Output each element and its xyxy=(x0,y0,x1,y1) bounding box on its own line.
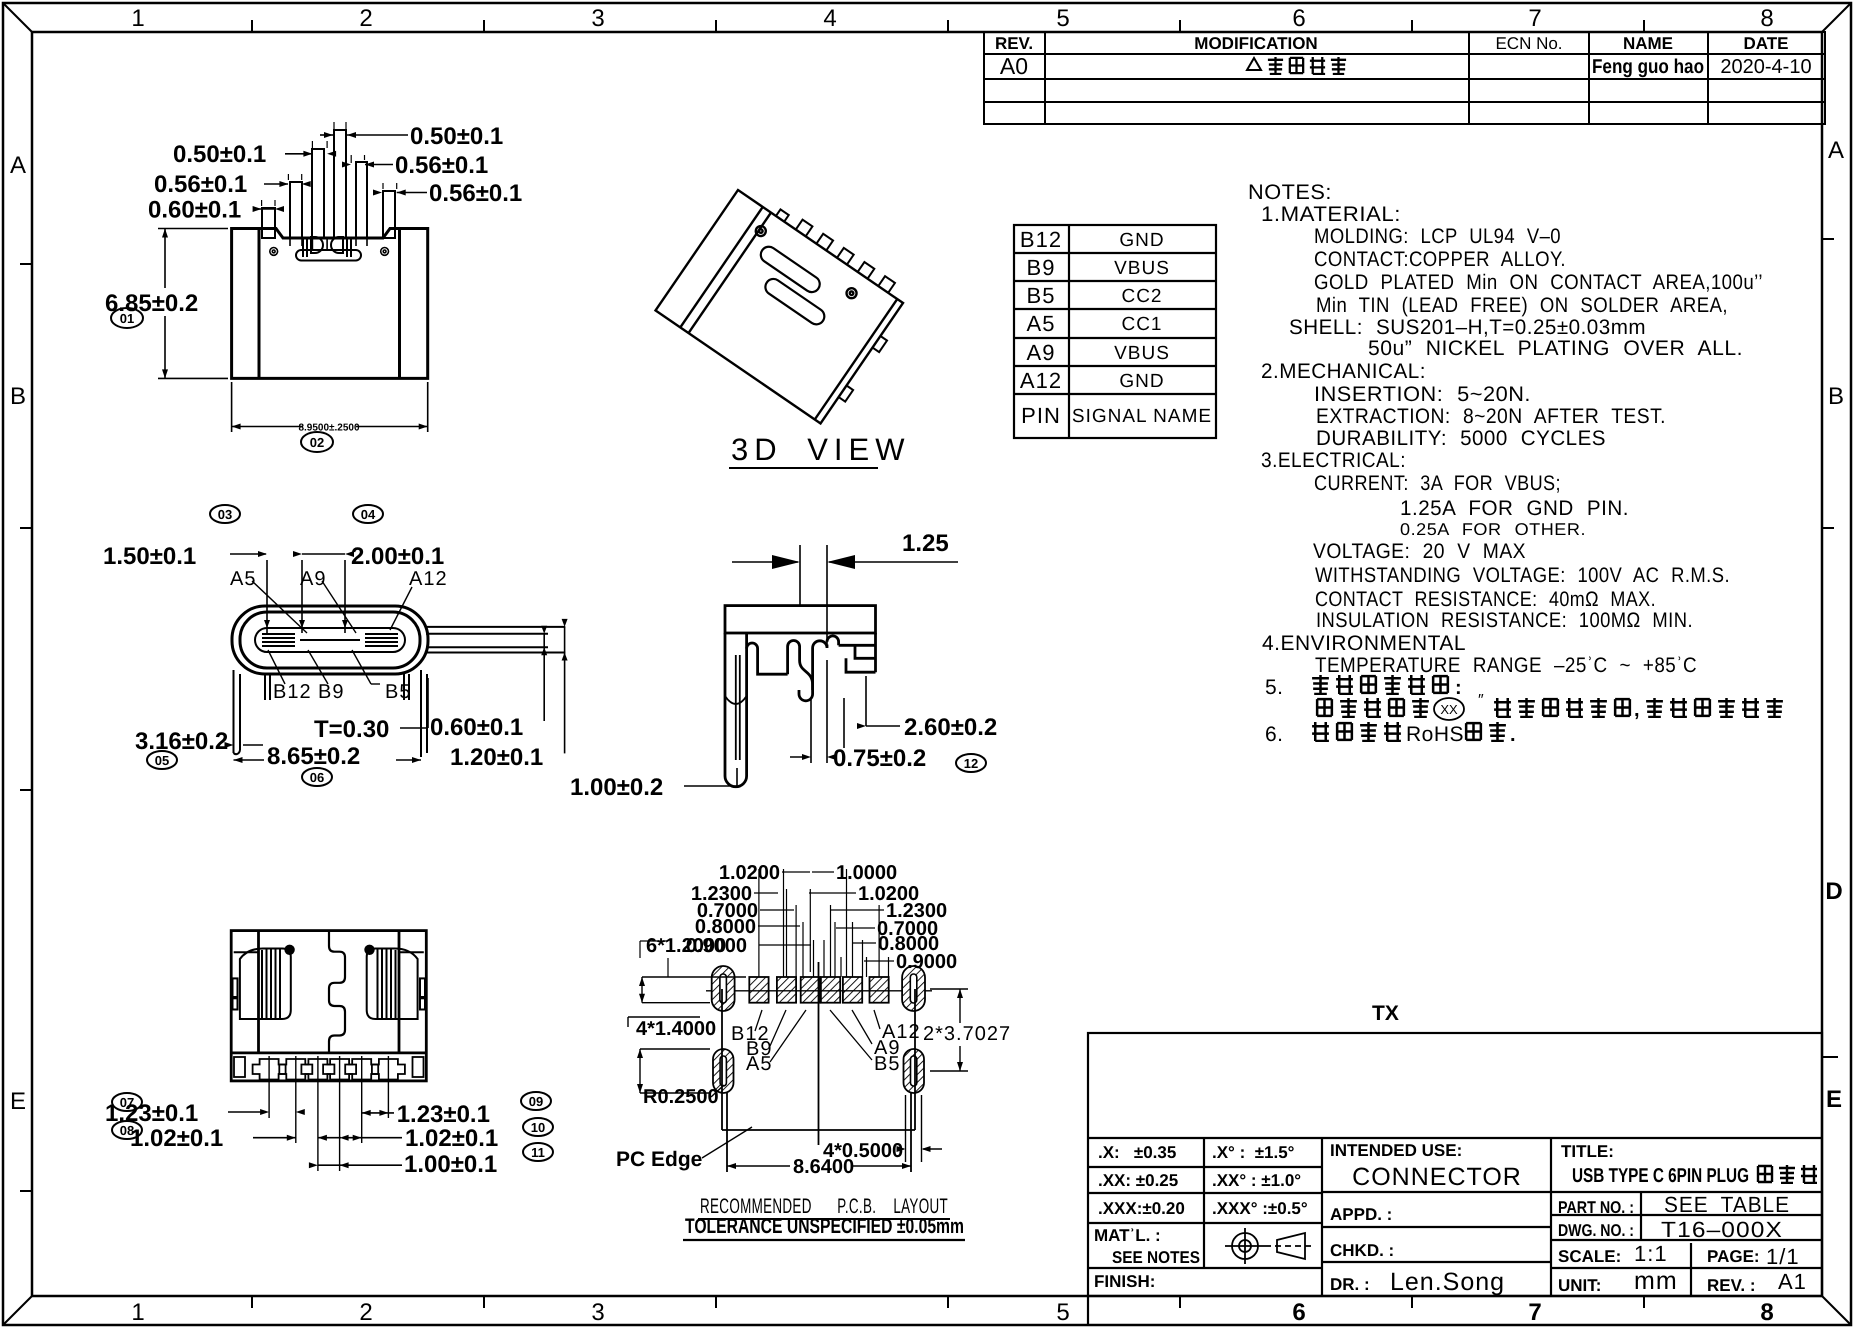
svg-text:APPD. :: APPD. : xyxy=(1330,1205,1392,1224)
svg-text:A0: A0 xyxy=(1000,53,1028,79)
balloon 12 xyxy=(956,754,986,772)
svg-text:Feng guo hao: Feng guo hao xyxy=(1592,56,1704,78)
svg-text:0.60±0.1: 0.60±0.1 xyxy=(148,197,241,224)
recommended PCB layout xyxy=(616,862,1011,1240)
8.6400 xyxy=(727,1156,911,1178)
svg-text:CC2: CC2 xyxy=(1121,286,1162,307)
svg-text:5: 5 xyxy=(1056,5,1069,32)
screw bosses xyxy=(270,248,389,256)
svg-text:1.23±0.1: 1.23±0.1 xyxy=(397,1101,490,1128)
inner contacts detail xyxy=(296,237,361,261)
svg-text:VBUS: VBUS xyxy=(1114,258,1170,279)
svg-text:05: 05 xyxy=(155,753,169,768)
svg-text:MOLDING: LCP UL94 V–0: MOLDING: LCP UL94 V–0 xyxy=(1314,225,1561,248)
svg-text:0.50±0.1: 0.50±0.1 xyxy=(173,141,266,168)
svg-text:A1: A1 xyxy=(1778,1269,1807,1294)
svg-text:2020-4-10: 2020-4-10 xyxy=(1720,56,1811,78)
pads row xyxy=(749,977,888,1003)
svg-text:INSULATION RESISTANCE: 100MΩ: INSULATION RESISTANCE: 100MΩ MIN. xyxy=(1316,609,1693,632)
2*3.7027 vertical dim xyxy=(930,989,968,1071)
oval inner slots xyxy=(720,974,917,1086)
svg-text:USB TYPE C 6PIN PLUG: USB TYPE C 6PIN PLUG xyxy=(1572,1165,1749,1187)
title block xyxy=(1088,1002,1822,1325)
svg-text:CURRENT: 3A FOR VBUS;: CURRENT: 3A FOR VBUS; xyxy=(1314,472,1561,495)
svg-text:MODIFICATION: MODIFICATION xyxy=(1194,34,1317,53)
R0.2500 xyxy=(643,1085,724,1108)
svg-text:CONNECTOR: CONNECTOR xyxy=(1352,1163,1522,1191)
dim 2.60±0.2 xyxy=(844,676,997,748)
pad row centerline xyxy=(706,990,932,992)
svg-text:A5: A5 xyxy=(230,568,256,590)
svg-text:09: 09 xyxy=(529,1094,543,1109)
svg-text:1.02±0.1: 1.02±0.1 xyxy=(405,1125,498,1152)
legs below pill xyxy=(234,670,428,757)
尺寸标注事项: xyxy=(1312,675,1329,694)
balloon 01 xyxy=(111,308,143,328)
svg-text:T=0.30: T=0.30 xyxy=(314,716,389,743)
svg-text:7: 7 xyxy=(1528,1299,1541,1326)
right spring contact xyxy=(367,949,425,1020)
third angle projection symbol xyxy=(1225,1228,1315,1264)
svg-text:CHKD. :: CHKD. : xyxy=(1330,1241,1394,1260)
balloons 07-11 xyxy=(112,1093,142,1111)
svg-text:.XX: ±0.25: .XX: ±0.25 xyxy=(1098,1171,1178,1190)
pin lead lines xyxy=(269,1056,388,1171)
3D view xyxy=(519,133,916,527)
middle puzzle parting line xyxy=(329,931,345,1053)
svg-text:TOLERANCE UNSPECIFIED ±0.05mm: TOLERANCE UNSPECIFIED ±0.05mm xyxy=(685,1215,964,1238)
svg-text:1.MATERIAL:: 1.MATERIAL: xyxy=(1261,203,1401,226)
svg-text:7: 7 xyxy=(1528,5,1541,32)
svg-text:8: 8 xyxy=(1760,1299,1773,1326)
svg-text:GND: GND xyxy=(1119,371,1164,392)
svg-text:4*1.4000: 4*1.4000 xyxy=(636,1018,716,1040)
svg-text:VBUS: VBUS xyxy=(1114,343,1170,364)
svg-text:GND: GND xyxy=(1119,230,1164,251)
svg-text:CONTACT RESISTANCE: 40mΩ MA: CONTACT RESISTANCE: 40mΩ MAX. xyxy=(1315,588,1656,611)
svg-text:CC1: CC1 xyxy=(1121,314,1162,335)
svg-text:A12: A12 xyxy=(1020,368,1062,393)
pad labels and leaders xyxy=(731,1021,1011,1075)
svg-text:A: A xyxy=(1828,137,1844,164)
svg-text:8.6400: 8.6400 xyxy=(793,1156,854,1178)
balloon 04 xyxy=(353,505,383,523)
dim 0.60±0.1 tab xyxy=(430,626,547,741)
svg-text:FINISH:: FINISH: xyxy=(1094,1272,1155,1291)
图示有标示 xyxy=(1317,699,1332,716)
oval pads xyxy=(712,966,925,1093)
svg-text:SEE NOTES: SEE NOTES xyxy=(1112,1248,1200,1267)
svg-text:PC Edge: PC Edge xyxy=(616,1148,702,1171)
svg-text:02: 02 xyxy=(310,435,324,450)
svg-text:3: 3 xyxy=(591,5,604,32)
dim 0.75±0.2 xyxy=(790,660,926,772)
svg-text:REV. :: REV. : xyxy=(1707,1276,1756,1295)
right edge tabs xyxy=(873,336,888,352)
svg-text:A9: A9 xyxy=(1027,340,1056,365)
svg-text:8.9500±.2500: 8.9500±.2500 xyxy=(298,423,360,434)
svg-text:8.65±0.2: 8.65±0.2 xyxy=(267,743,360,770)
svg-text:REV.: REV. xyxy=(995,34,1033,53)
svg-text:B12: B12 xyxy=(273,681,312,703)
svg-text:3D VIEW: 3D VIEW xyxy=(731,432,910,467)
left spring contact xyxy=(233,949,291,1020)
svg-text:.XXX° :±0.5°: .XXX° :±0.5° xyxy=(1212,1199,1308,1218)
svg-text:11: 11 xyxy=(531,1145,545,1160)
svg-text:,: , xyxy=(1634,699,1640,721)
svg-text:1.50±0.1: 1.50±0.1 xyxy=(103,543,196,570)
bottom view xyxy=(105,931,553,1178)
6*1.2000 bracket vertical with arrows xyxy=(642,977,746,1003)
svg-text:GOLD PLATED Min ON CONTACT: GOLD PLATED Min ON CONTACT AREA,100u’’ xyxy=(1314,271,1763,294)
svg-text:B12: B12 xyxy=(1020,227,1062,252)
body profile xyxy=(725,606,876,787)
svg-text:CONTACT:COPPER ALLOY.: CONTACT:COPPER ALLOY. xyxy=(1314,248,1566,271)
side section view xyxy=(570,530,997,801)
dim 0.56±0.1 left xyxy=(154,171,311,198)
svg-text:B: B xyxy=(1828,383,1844,410)
dim 6.85±0.2 left vertical xyxy=(105,229,228,379)
svg-text:″: ″ xyxy=(1478,692,1484,709)
balloon 05 xyxy=(147,751,177,769)
svg-text:NOTES:: NOTES: xyxy=(1248,181,1332,204)
svg-text:1: 1 xyxy=(131,1299,144,1326)
svg-text:12: 12 xyxy=(964,756,978,771)
svg-text:1.00±0.1: 1.00±0.1 xyxy=(404,1151,497,1178)
dim lines top xyxy=(640,872,894,977)
svg-text:B9: B9 xyxy=(318,681,344,703)
revision table xyxy=(984,32,1825,124)
svg-text:Min TIN (LEAD FREE) ON SO: Min TIN (LEAD FREE) ON SOLDER AREA, xyxy=(1316,294,1728,317)
产品符合 RoHS 标准 xyxy=(1312,722,1329,741)
svg-text:WITHSTANDING VOLTAGE: 100V: WITHSTANDING VOLTAGE: 100V AC R.M.S. xyxy=(1315,564,1730,587)
svg-text:A9: A9 xyxy=(300,568,326,590)
svg-text:T16–000X: T16–000X xyxy=(1661,1217,1783,1242)
6 solder pins with leads xyxy=(234,1057,424,1080)
svg-text:01: 01 xyxy=(120,311,134,326)
dim 1.23 left xyxy=(105,1100,305,1127)
svg-text:ECN No.: ECN No. xyxy=(1495,34,1562,53)
svg-text:mm: mm xyxy=(1634,1267,1678,1295)
pin signal table xyxy=(1014,225,1216,438)
svg-text:TEMPERATURE RANGE –25ʾC ~: TEMPERATURE RANGE –25ʾC ~ +85ʾC xyxy=(1315,654,1697,677)
top (plug) view with pill shape xyxy=(103,505,568,786)
dim 2.00±0.1 xyxy=(293,543,444,633)
captions xyxy=(700,1195,948,1218)
dim 0.50±0.1 top right xyxy=(320,122,503,150)
PC Edge xyxy=(616,1127,752,1171)
dim T=0.30 xyxy=(314,678,428,743)
svg-text:.XX° : ±1.0°: .XX° : ±1.0° xyxy=(1212,1171,1301,1190)
dim 8.95 bottom xyxy=(232,382,428,434)
dim 1.00 middle xyxy=(309,1151,497,1178)
svg-text:1.02±0.1: 1.02±0.1 xyxy=(130,1125,223,1152)
4*1.4000 label xyxy=(628,1017,716,1093)
svg-text:DATE: DATE xyxy=(1743,34,1788,53)
svg-text:1.25: 1.25 xyxy=(902,530,949,557)
svg-text:A5: A5 xyxy=(1027,311,1056,336)
dim 0.50±0.1 top left xyxy=(173,141,336,168)
dim 1.02 left xyxy=(130,1125,341,1152)
svg-text:TITLE:: TITLE: xyxy=(1561,1142,1614,1161)
svg-text:SIGNAL NAME: SIGNAL NAME xyxy=(1072,406,1212,427)
svg-text:B: B xyxy=(10,383,26,410)
dim 0.56±0.1 right xyxy=(342,152,488,179)
svg-text:RoHS: RoHS xyxy=(1406,723,1464,746)
svg-text:5.: 5. xyxy=(1265,676,1284,699)
front view connector body xyxy=(105,122,522,452)
svg-text:4: 4 xyxy=(823,5,836,32)
svg-text:EXTRACTION: 8~20N AFTER TES: EXTRACTION: 8~20N AFTER TEST. xyxy=(1316,405,1666,428)
svg-text:A: A xyxy=(10,152,26,179)
svg-text:A12: A12 xyxy=(409,568,448,590)
svg-text:1.20±0.1: 1.20±0.1 xyxy=(450,744,543,771)
dim 1.25 xyxy=(732,530,958,645)
svg-text:.X° : ±1.5°: .X° : ±1.5° xyxy=(1212,1143,1295,1162)
svg-text:0.60±0.1: 0.60±0.1 xyxy=(430,714,523,741)
svg-text:D: D xyxy=(1825,878,1842,905)
svg-text:2.MECHANICAL:: 2.MECHANICAL: xyxy=(1261,360,1426,383)
svg-text:.X: ±0.35: .X: ±0.35 xyxy=(1098,1143,1176,1162)
svg-text:2.00±0.1: 2.00±0.1 xyxy=(351,543,444,570)
svg-text:0.56±0.1: 0.56±0.1 xyxy=(154,171,247,198)
contact labels B12 B9 B5 xyxy=(273,681,411,703)
svg-text:SHELL: SUS201–H,T=0.25±0.03mm: SHELL: SUS201–H,T=0.25±0.03mm xyxy=(1289,316,1646,339)
svg-text:04: 04 xyxy=(361,507,376,522)
svg-text:3.16±0.2: 3.16±0.2 xyxy=(135,728,228,755)
svg-text:SEE TABLE: SEE TABLE xyxy=(1664,1192,1790,1217)
circled XX xyxy=(1434,698,1464,720)
warning triangle + CJK 新版发行 xyxy=(1247,57,1346,74)
svg-text:6: 6 xyxy=(1292,1299,1305,1326)
svg-text:1/1: 1/1 xyxy=(1766,1244,1800,1269)
svg-text:6: 6 xyxy=(1292,5,1305,32)
svg-text:B5: B5 xyxy=(385,681,411,703)
U slot xyxy=(758,244,823,296)
svg-text:R0.2500: R0.2500 xyxy=(643,1086,719,1108)
dim 0.60±0.1 left xyxy=(148,197,284,224)
dim 1.00±0.2 xyxy=(570,768,737,801)
svg-text:.: . xyxy=(1510,724,1516,746)
svg-text:INSERTION: 5~20N.: INSERTION: 5~20N. xyxy=(1314,383,1531,406)
svg-text::: : xyxy=(1455,677,1462,699)
balloon 06 xyxy=(302,768,332,786)
dim 1.02 right xyxy=(340,1125,499,1152)
svg-text:8: 8 xyxy=(1760,5,1773,32)
svg-text:DURABILITY: 5000 CYCLES: DURABILITY: 5000 CYCLES xyxy=(1316,427,1606,450)
dim 8.65±0.2 xyxy=(234,743,422,770)
svg-text:4.ENVIRONMENTAL: 4.ENVIRONMENTAL xyxy=(1262,632,1466,655)
top dimension ext lines xyxy=(759,869,889,977)
svg-text:1: 1 xyxy=(131,5,144,32)
svg-text:DWG. NO. :: DWG. NO. : xyxy=(1558,1221,1634,1240)
dim 3.16±0.2 xyxy=(135,728,263,755)
svg-text:5: 5 xyxy=(1056,1299,1069,1326)
svg-text:UNIT:: UNIT: xyxy=(1558,1276,1601,1295)
dim 1.50±0.1 xyxy=(103,543,270,633)
right tab xyxy=(426,627,565,653)
svg-text:06: 06 xyxy=(310,770,324,785)
dim 1.23 right xyxy=(362,1101,490,1128)
svg-text:INTENDED USE:: INTENDED USE: xyxy=(1330,1141,1462,1160)
PC edge outline xyxy=(722,962,915,1172)
svg-text:0.56±0.1: 0.56±0.1 xyxy=(429,180,522,207)
svg-text:E: E xyxy=(10,1088,26,1115)
svg-text:SCALE:: SCALE: xyxy=(1558,1247,1621,1266)
svg-text:2: 2 xyxy=(359,1299,372,1326)
svg-text:B9: B9 xyxy=(1027,255,1056,280)
svg-text:VOLTAGE: 20 V MAX: VOLTAGE: 20 V MAX xyxy=(1313,540,1526,563)
svg-text:TX: TX xyxy=(1372,1002,1399,1025)
svg-text:1.25A FOR GND PIN.: 1.25A FOR GND PIN. xyxy=(1400,497,1629,520)
svg-text:NAME: NAME xyxy=(1623,34,1673,53)
svg-text:2: 2 xyxy=(359,5,372,32)
svg-text:Len.Song: Len.Song xyxy=(1390,1268,1505,1296)
dim 0.56±0.1 right low xyxy=(373,180,522,207)
svg-text:03: 03 xyxy=(218,507,232,522)
svg-text:0.50±0.1: 0.50±0.1 xyxy=(410,123,503,150)
svg-text:1.0000: 1.0000 xyxy=(836,862,897,884)
svg-text:MATʾL. :: MATʾL. : xyxy=(1094,1226,1161,1245)
pill outer shell xyxy=(232,606,428,674)
svg-text:50u” NICKEL PLATING OVER A: 50u” NICKEL PLATING OVER ALL. xyxy=(1368,337,1743,360)
contact labels A5 A9 A12 xyxy=(230,568,448,590)
svg-text:0.9000: 0.9000 xyxy=(896,951,957,973)
svg-text:0.25A FOR OTHER.: 0.25A FOR OTHER. xyxy=(1400,520,1586,539)
6 top pins xyxy=(262,130,395,238)
svg-text:1.23±0.1: 1.23±0.1 xyxy=(105,1100,198,1127)
balloon 03 xyxy=(210,505,240,523)
svg-text:E: E xyxy=(1826,1086,1842,1113)
tongue xyxy=(255,628,405,652)
svg-text:PIN: PIN xyxy=(1021,403,1061,428)
note 5/6 CJK (simulated glyph boxes) xyxy=(1312,675,1783,746)
svg-text:PAGE:: PAGE: xyxy=(1707,1247,1760,1266)
svg-text:1.0200: 1.0200 xyxy=(719,862,780,884)
svg-text:.XXX:±0.20: .XXX:±0.20 xyxy=(1098,1199,1185,1218)
top edge teeth xyxy=(776,209,789,221)
svg-text:1.00±0.2: 1.00±0.2 xyxy=(570,774,663,801)
top dims left xyxy=(686,862,780,957)
dim 1.20±0.1 tab xyxy=(450,619,568,771)
svg-text:B5: B5 xyxy=(874,1053,900,1075)
svg-text:3.ELECTRICAL:: 3.ELECTRICAL: xyxy=(1261,449,1406,472)
svg-text:PART NO. :: PART NO. : xyxy=(1558,1198,1634,1217)
NOTES text xyxy=(1248,181,1763,746)
svg-text:B5: B5 xyxy=(1027,283,1056,308)
svg-text:10: 10 xyxy=(531,1120,545,1135)
screw circles xyxy=(754,224,768,238)
svg-text:2.60±0.2: 2.60±0.2 xyxy=(904,714,997,741)
svg-text:6.: 6. xyxy=(1265,723,1284,746)
svg-text:6*1.2000: 6*1.2000 xyxy=(646,935,726,957)
svg-text:3: 3 xyxy=(591,1299,604,1326)
rivet dots xyxy=(284,945,294,955)
svg-text:A5: A5 xyxy=(746,1053,772,1075)
svg-text:2*3.7027: 2*3.7027 xyxy=(923,1023,1011,1045)
svg-text:0.75±0.2: 0.75±0.2 xyxy=(833,745,926,772)
svg-text:1:1: 1:1 xyxy=(1634,1241,1668,1266)
CJK 简易版 in title xyxy=(1758,1165,1817,1183)
svg-text:DR. :: DR. : xyxy=(1330,1275,1370,1294)
balloon 02 xyxy=(301,432,333,452)
svg-text:0.56±0.1: 0.56±0.1 xyxy=(395,152,488,179)
svg-text:XX: XX xyxy=(1440,702,1458,717)
者为首样全检,重点管控尺寸. xyxy=(1494,698,1511,717)
4*0.5000 xyxy=(823,1095,942,1162)
pin stubs below notch xyxy=(290,238,367,249)
